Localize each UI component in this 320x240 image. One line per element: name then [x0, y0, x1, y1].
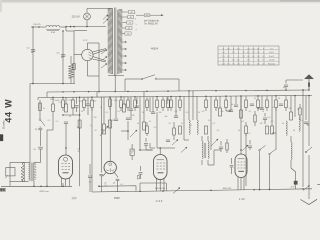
- label choke value: [51, 32, 56, 34]
- label tube V3: [156, 199, 163, 203]
- wire second chain: [52, 97, 54, 104]
- rail junction nodes: [52, 89, 310, 98]
- svg-text:4: 4: [135, 19, 136, 21]
- label tube V1: [71, 197, 76, 201]
- component column x167: [166, 97, 168, 104]
- component value labels: [43, 87, 309, 189]
- component column x131: [129, 97, 133, 120]
- switch S1 mains: [141, 75, 170, 80]
- capacitor C3 20uF: [33, 147, 42, 151]
- component column x79: [78, 97, 81, 186]
- svg-text:50: 50: [81, 111, 83, 113]
- svg-text:Wsstörk: Wsstörk: [268, 63, 275, 66]
- resistor R4 field coil: [21, 163, 24, 182]
- label bus left: [39, 190, 49, 193]
- svg-text:0,2: 0,2: [213, 123, 216, 125]
- svg-text:0,5: 0,5: [56, 121, 59, 123]
- tube V1 output pentode: [59, 155, 73, 179]
- wire lamp bottom: [65, 20, 106, 28]
- switch S3 wave change: [305, 140, 312, 153]
- arrow trimmer V3: [181, 147, 187, 153]
- svg-text:30: 30: [112, 120, 114, 122]
- wire choke to selector: [60, 27, 66, 31]
- wire link i: [306, 123, 309, 125]
- inductor L1 mains choke: [46, 25, 60, 30]
- component column x176: [174, 96, 178, 117]
- wire rectifier cathode: [87, 43, 99, 49]
- component column x226: [225, 96, 228, 111]
- tube V1 electrodes: [62, 157, 71, 173]
- wire speaker top: [23, 162, 29, 164]
- component column x180: [179, 96, 182, 134]
- component column x220: [219, 96, 222, 116]
- svg-text:50: 50: [95, 130, 97, 132]
- component column x184: [183, 96, 185, 140]
- resistor R15: [173, 122, 176, 140]
- svg-text:1: 1: [136, 24, 137, 26]
- svg-text:0,1: 0,1: [104, 185, 106, 187]
- svg-text:50k: 50k: [164, 116, 167, 118]
- component column x303: [302, 90, 304, 187]
- corner mark B: [0, 188, 6, 192]
- resistor R3: [52, 104, 55, 112]
- wire heater run: [98, 185, 136, 191]
- capacitor C12: [144, 138, 152, 150]
- svg-text:E452 1234: E452 1234: [155, 188, 166, 190]
- svg-text:0,1: 0,1: [169, 123, 172, 125]
- transformer T2 secondary: [34, 163, 36, 182]
- transformer T1 secondary taps: [122, 10, 135, 35]
- label R cluster: [50, 99, 118, 132]
- svg-text:462: 462: [146, 15, 149, 17]
- svg-text:5k: 5k: [100, 107, 102, 109]
- wire link h: [272, 132, 276, 134]
- capacitor C10 electrolytic: [130, 144, 134, 160]
- svg-text:0,1: 0,1: [154, 127, 157, 129]
- wire chassis bus left: [1, 185, 72, 187]
- wire link g: [257, 107, 262, 109]
- svg-text:30: 30: [278, 98, 280, 100]
- svg-text:Prüf 1: Prüf 1: [269, 52, 275, 54]
- wire mains mid drop: [62, 30, 64, 83]
- svg-text:20: 20: [35, 129, 37, 131]
- wire across mains caps: [30, 83, 75, 85]
- capacitor C2 mains: [57, 53, 66, 58]
- transformer T1 primary winding: [108, 8, 113, 74]
- capacitor C4 bypass: [35, 128, 42, 131]
- transformer T2 core: [31, 163, 32, 182]
- svg-text:44 W: 44 W: [3, 99, 13, 123]
- wire second chain low: [47, 112, 53, 131]
- resistor R5 surge: [73, 64, 75, 70]
- wire rectifier input: [74, 54, 82, 56]
- transformer T1 core base: [108, 75, 124, 77]
- component column x101: [100, 97, 102, 172]
- component column x88: [86, 97, 90, 115]
- component column x157: [156, 97, 159, 111]
- component column x97: [96, 92, 98, 97]
- component column x63: [62, 97, 65, 111]
- tube V3 electrodes: [157, 160, 166, 173]
- component column x262: [260, 96, 264, 110]
- capacitor C7: [88, 176, 92, 184]
- svg-text:3: 3: [136, 30, 137, 32]
- tube V1 pins: [62, 178, 70, 186]
- rectifier tube V5: [82, 49, 93, 60]
- component column x144: [143, 91, 146, 130]
- label V1 bias: [77, 149, 79, 154]
- svg-text:220 1W: 220 1W: [72, 16, 81, 18]
- component column x286: [285, 96, 288, 136]
- component column x246: [245, 96, 248, 186]
- capacitor C11 coupling: [137, 166, 142, 179]
- svg-text:Graetz: Graetz: [2, 120, 6, 129]
- resistor R1 dropper: [68, 56, 73, 84]
- capacitor C1 mains: [27, 48, 36, 53]
- svg-text:2k: 2k: [181, 123, 183, 125]
- svg-text:7: 7: [135, 13, 136, 15]
- wire speaker bottom: [23, 181, 29, 183]
- tube V2 detector: [104, 161, 116, 173]
- wire V4 anode: [240, 96, 242, 154]
- wire antenna down: [308, 79, 310, 90]
- component column x193: [192, 91, 194, 120]
- svg-text:0,1: 0,1: [175, 111, 178, 113]
- label tube V4: [239, 197, 246, 201]
- component column x231: [229, 96, 233, 112]
- svg-text:0,5: 0,5: [186, 112, 189, 114]
- arrow trimmer V4: [242, 145, 248, 151]
- svg-text:0,1: 0,1: [48, 120, 51, 122]
- svg-text:µV=W: µV=W: [269, 60, 275, 62]
- wire selector feed: [66, 31, 74, 84]
- svg-text:5k: 5k: [208, 120, 210, 122]
- component column x121: [120, 97, 123, 111]
- switch S5 band b: [269, 150, 276, 162]
- svg-text:µF18: µF18: [290, 187, 294, 189]
- wire rectifier heater drop: [87, 61, 99, 76]
- svg-text:2k: 2k: [262, 111, 264, 113]
- component column x252: [250, 104, 254, 106]
- svg-text:0,1: 0,1: [106, 112, 109, 114]
- wire L5 core: [205, 143, 206, 158]
- svg-text:1M: 1M: [289, 108, 292, 110]
- wire L7 down: [291, 168, 296, 175]
- lamp La1 dial lamp: [84, 13, 91, 20]
- wire transformer bottom: [114, 76, 116, 91]
- wire hv riser: [98, 43, 100, 92]
- bus nodes left: [33, 186, 64, 188]
- svg-text:0,2: 0,2: [118, 111, 121, 113]
- capacitor C21 block: [294, 181, 297, 184]
- wire link b: [121, 130, 129, 132]
- wire T2 feed: [29, 84, 30, 163]
- svg-text:0,1: 0,1: [120, 184, 122, 186]
- wire link V3 anode: [157, 131, 160, 148]
- wire above V3: [150, 143, 155, 148]
- wire V4 grid top: [214, 150, 221, 165]
- wire rectifier anode b: [93, 57, 107, 63]
- svg-text:1k: 1k: [142, 112, 144, 114]
- speaker LS1 frame: [10, 163, 24, 182]
- resistor R23: [299, 104, 301, 120]
- label lamp 220 1W: [72, 16, 81, 18]
- svg-text:0,1: 0,1: [59, 102, 62, 104]
- component column x241: [240, 96, 243, 118]
- component column x128: [126, 97, 130, 140]
- antenna A1: [305, 75, 314, 87]
- svg-text:0,2: 0,2: [248, 133, 251, 135]
- wire V3 anode: [157, 112, 175, 155]
- component column x258: [257, 96, 260, 111]
- wire mains top: [31, 26, 46, 28]
- component column x135: [130, 97, 137, 137]
- note line 1: [144, 19, 160, 22]
- svg-text:10k: 10k: [227, 111, 230, 113]
- wire right column: [308, 155, 310, 199]
- svg-text:0,1: 0,1: [249, 111, 252, 113]
- label tube V3 row: [155, 188, 166, 190]
- label 125V: [83, 40, 88, 42]
- component column x104: [100, 97, 108, 136]
- tube V4 electrodes: [238, 159, 246, 172]
- label tube V4 row: [223, 188, 232, 190]
- component column x206: [205, 96, 208, 134]
- capacitor C17 grid: [230, 166, 234, 168]
- wire dial switch feed: [125, 79, 179, 91]
- component column x150: [149, 97, 151, 112]
- svg-text:50: 50: [238, 130, 240, 132]
- svg-text:2k: 2k: [198, 112, 200, 114]
- wire rail left drop a: [46, 92, 48, 97]
- wire B+ rail: [47, 90, 309, 92]
- wire bus risers: [34, 130, 63, 186]
- wire link c: [139, 149, 153, 151]
- component column x163: [162, 97, 165, 111]
- svg-text:0,1: 0,1: [190, 125, 193, 127]
- svg-text:50: 50: [137, 123, 139, 125]
- svg-text:0,5: 0,5: [86, 100, 89, 102]
- wire C7: [89, 164, 91, 192]
- node mains input: [38, 26, 40, 28]
- transformer T1 tap digits: [135, 13, 137, 32]
- svg-text:20: 20: [33, 149, 35, 151]
- component column x153: [151, 97, 155, 114]
- arrow tuning: [172, 140, 178, 146]
- svg-text:2k: 2k: [69, 116, 71, 118]
- wire rail left drop b: [37, 98, 39, 101]
- svg-text:1M: 1M: [260, 123, 263, 125]
- svg-text:5k: 5k: [282, 123, 284, 125]
- tube V2 internals: [107, 163, 114, 172]
- svg-text:1k: 1k: [254, 98, 256, 100]
- wire switch drops: [259, 157, 271, 190]
- svg-text:L 4 F: L 4 F: [239, 197, 246, 201]
- resistor R22: [254, 111, 256, 126]
- transformer T1 heater taps: [122, 41, 126, 70]
- component column x236: [234, 96, 238, 107]
- transformer T1 secondary winding: [118, 9, 123, 74]
- wire V2 anode: [109, 97, 111, 161]
- svg-text:46504: 46504: [151, 48, 159, 51]
- svg-text:2k: 2k: [43, 108, 45, 110]
- component column x281: [279, 104, 283, 106]
- voltage selector arrow b: [103, 19, 108, 24]
- component column x171: [170, 97, 173, 111]
- capacitor C9: [113, 179, 123, 191]
- component column x110: [109, 97, 112, 128]
- note line 2: [144, 23, 158, 26]
- svg-text:7TP: 7TP: [71, 197, 76, 201]
- component column x66: [64, 97, 68, 123]
- capacitor C8: [100, 174, 107, 192]
- switch S2 tone: [39, 119, 45, 127]
- svg-text:E455 123: E455 123: [223, 188, 232, 190]
- svg-text:4702 Leer: 4702 Leer: [39, 190, 49, 193]
- svg-text:1 2 V: 1 2 V: [83, 40, 88, 42]
- svg-text:10k: 10k: [76, 127, 79, 129]
- svg-text:µF: µF: [113, 182, 115, 184]
- component column x211: [210, 96, 212, 150]
- component column x197: [197, 96, 198, 134]
- mains voltage label 110V: [33, 24, 41, 26]
- note number 46504: [151, 48, 159, 51]
- svg-text:0,1: 0,1: [90, 125, 93, 127]
- component column x73: [72, 97, 75, 115]
- transformer T1 core: [114, 8, 116, 77]
- svg-text:bei Geräten ab: bei Geräten ab: [144, 19, 160, 22]
- wire link a: [62, 114, 80, 116]
- wire C21: [295, 175, 297, 189]
- component column x116: [114, 97, 118, 121]
- bus right risers: [92, 160, 304, 192]
- svg-text:Nr. 04052 /W: Nr. 04052 /W: [144, 23, 158, 26]
- component column x272: [271, 96, 274, 134]
- capacitor C5: [74, 97, 78, 112]
- voltage selector arrow a: [103, 15, 108, 20]
- wire link d: [184, 139, 189, 141]
- svg-text:2M: 2M: [94, 117, 97, 119]
- wire rectifier anode a: [93, 49, 107, 55]
- wire right riser: [308, 95, 310, 140]
- component column x306: [304, 96, 308, 124]
- tube V3 IF amp: [154, 155, 168, 180]
- svg-text:0,1: 0,1: [242, 121, 245, 123]
- svg-text:ZWF: ZWF: [114, 196, 120, 200]
- component column x295: [294, 96, 296, 117]
- svg-text:10k: 10k: [158, 112, 161, 114]
- label tube V2: [114, 196, 120, 200]
- svg-text:3k: 3k: [124, 104, 126, 106]
- svg-text:50: 50: [231, 104, 233, 106]
- wire chassis bus right: [92, 189, 312, 192]
- capacitor C18: [263, 113, 267, 124]
- component column x168: [166, 97, 170, 142]
- component column x216: [211, 96, 218, 146]
- component column x147: [146, 97, 149, 136]
- wire link e: [101, 129, 104, 131]
- right edge tick: [317, 184, 320, 186]
- svg-text:1M: 1M: [132, 115, 135, 117]
- tube V2 pins: [103, 172, 118, 177]
- inductor L7 antenna coil: [291, 136, 292, 168]
- component column x267: [266, 96, 269, 134]
- label Graetz rotated: [2, 99, 14, 129]
- inductor L5 IF coil: [202, 136, 203, 165]
- svg-text:0,5: 0,5: [271, 121, 274, 123]
- svg-text:5k: 5k: [149, 121, 151, 123]
- inductor L6 IF coil: [208, 136, 214, 165]
- arrow trimmer right: [303, 186, 310, 191]
- ground symbol: [301, 199, 318, 204]
- wire lamp top: [87, 9, 113, 14]
- wire mains left drop: [32, 26, 34, 83]
- transformer T2 output primary: [29, 163, 30, 181]
- svg-text:0,3: 0,3: [268, 117, 271, 119]
- component column x84: [83, 97, 86, 111]
- svg-text:48: 48: [78, 151, 80, 153]
- component column x140: [139, 97, 141, 150]
- wire V3 cathode run: [140, 183, 166, 191]
- svg-text:C 4 F: C 4 F: [156, 199, 163, 203]
- wire heater rail: [38, 96, 312, 98]
- resistor R20: [226, 139, 228, 153]
- svg-text:50k: 50k: [220, 111, 223, 113]
- note tag box: [136, 14, 163, 17]
- svg-text:0,5H: 0,5H: [51, 32, 56, 34]
- svg-text:0,2: 0,2: [128, 98, 131, 100]
- wire volume chain: [39, 100, 41, 146]
- capacitor C15: [219, 141, 223, 152]
- wire output to bus: [9, 182, 11, 187]
- capacitor C16: [248, 140, 252, 150]
- wire link f: [226, 110, 231, 112]
- left edge registration mark: [0, 134, 3, 141]
- speaker LS1 cone box: [5, 168, 15, 179]
- tube V3 pins: [157, 179, 165, 192]
- component column x189: [189, 91, 190, 134]
- svg-text:30: 30: [293, 130, 295, 132]
- capacitor C20: [284, 80, 304, 91]
- wire volume chain low: [34, 149, 41, 163]
- svg-text:5000: 5000: [114, 100, 118, 102]
- arrow AVC: [173, 188, 180, 194]
- tube V4 mixer: [235, 154, 247, 178]
- component column x92: [91, 97, 94, 160]
- wire C17: [231, 158, 233, 174]
- transformer T1 primary taps: [101, 50, 107, 69]
- component column x276: [275, 96, 278, 150]
- component column x137: [135, 97, 139, 108]
- tube V4 pins: [238, 177, 244, 190]
- component column x291: [290, 96, 293, 120]
- svg-text:110 125: 110 125: [33, 24, 41, 26]
- svg-text:0,3: 0,3: [202, 111, 205, 113]
- resistor R2: [39, 103, 42, 111]
- svg-text:0,1: 0,1: [273, 107, 276, 109]
- wire V1 anode: [65, 124, 67, 155]
- wire lamp loop: [74, 30, 87, 32]
- component column x299: [299, 117, 300, 131]
- svg-text:Prüf 2: Prüf 2: [269, 56, 275, 58]
- switch S4 band a: [259, 146, 266, 158]
- svg-text:0,1: 0,1: [301, 120, 304, 122]
- component column x124: [123, 97, 126, 112]
- svg-text:0,5: 0,5: [217, 130, 220, 132]
- table tube data chart: [218, 46, 279, 66]
- svg-text:2000: 2000: [50, 99, 54, 101]
